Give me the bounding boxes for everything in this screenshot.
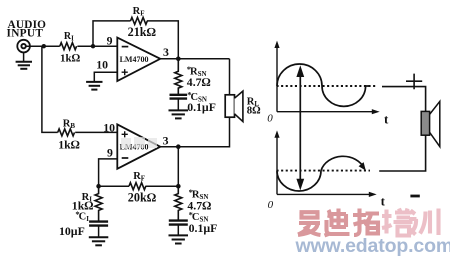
- glyph YI (easy): [298, 212, 321, 235]
- wire U2 output: [160, 146, 178, 148]
- node snubber2 junction: [176, 184, 181, 189]
- svg-text:t: t: [381, 194, 386, 209]
- wire speaker bottom to U2 output: [178, 117, 229, 147]
- wire feedback right-down to output node: [147, 21, 178, 59]
- svg-text:10µF: 10µF: [59, 224, 85, 238]
- svg-text:3: 3: [163, 133, 169, 147]
- svg-text:0: 0: [268, 199, 274, 211]
- waveform plot 1: y-axis: [274, 41, 279, 112]
- svg-text:9: 9: [107, 145, 113, 159]
- wire U2 output down: [177, 147, 179, 187]
- pin 9 label (U1): [107, 34, 113, 48]
- waveform plot 2: y-axis: [274, 130, 279, 194]
- svg-text:3: 3: [163, 45, 169, 59]
- svg-text:9: 9: [107, 34, 113, 48]
- svg-text:RB: RB: [63, 118, 76, 129]
- op-amp U2 LM4700: [117, 124, 160, 168]
- dotted midline (plot 1): [277, 85, 378, 87]
- sine wave (plot 2, inverted): [277, 156, 366, 191]
- dotted midline (plot 2): [277, 170, 371, 172]
- node input junction: [42, 44, 46, 48]
- svg-text:10: 10: [103, 121, 115, 135]
- pin 3 label (U1): [163, 45, 169, 59]
- label RF2 20k: [128, 171, 156, 205]
- resistor RB zigzag: [58, 129, 75, 136]
- wire feedback up-left: [93, 21, 131, 46]
- svg-text:8Ω: 8Ω: [247, 105, 261, 117]
- wire pin9 down to feedback node: [99, 159, 118, 186]
- label Ri2: [72, 192, 94, 212]
- glyph DI (enlighten): [325, 209, 350, 236]
- waveform plot 2: x-axis (t): [277, 192, 386, 209]
- ground (U1 pin 10): [86, 82, 102, 90]
- capacitor CSN1: [170, 95, 188, 111]
- input connector J1: [17, 40, 30, 53]
- ground (CSN1): [169, 110, 189, 118]
- resistor RF (21k) zigzag: [131, 17, 148, 24]
- resistor Ri2 (1k to Ci): [95, 186, 102, 221]
- svg-text:10: 10: [96, 57, 108, 71]
- svg-text:0: 0: [267, 112, 273, 124]
- label RSN2: [187, 187, 211, 213]
- svg-text:RF: RF: [133, 171, 145, 183]
- svg-text:1kΩ: 1kΩ: [60, 53, 81, 65]
- ground (input connector): [16, 52, 32, 68]
- label RB: [58, 118, 80, 151]
- label 0 (plot 2): [268, 199, 274, 211]
- svg-text:20kΩ: 20kΩ: [128, 191, 156, 205]
- node U2 output junction: [176, 144, 181, 149]
- wire speaker loop right side down: [229, 59, 231, 95]
- waveform plot 1: x-axis (t): [277, 109, 389, 127]
- wire pin10 to ground: [94, 72, 117, 82]
- watermark ghost (faint) behind U2: [121, 137, 157, 148]
- label RSN1: [187, 64, 211, 89]
- svg-text:RF: RF: [133, 6, 145, 18]
- label 0 (plot 1): [267, 112, 273, 124]
- node AUDIO INPUT label: [7, 19, 47, 39]
- resistor RSN1 (snubber): [175, 59, 182, 95]
- wire input branch down to RB: [42, 46, 58, 132]
- glyph PEI (cultivate, lighter): [382, 209, 413, 236]
- ground (Ci): [89, 237, 109, 245]
- wire speaker - to dotted line 2: [379, 135, 425, 171]
- svg-text:0.1µF: 0.1µF: [187, 100, 216, 114]
- wire node to RF2: [99, 185, 129, 187]
- node feedback junction: [91, 44, 95, 48]
- svg-text:t: t: [384, 112, 389, 127]
- watermark text: red CJK glyphs (drawn): [298, 209, 439, 236]
- capacitor Ci 10uF: [89, 222, 108, 238]
- speaker (right, bridge load): [421, 101, 440, 146]
- svg-text:1kΩ: 1kΩ: [58, 138, 80, 152]
- op-amp U1 LM4700: [117, 38, 160, 81]
- svg-text:INPUT: INPUT: [7, 28, 44, 40]
- label RL 8ohm: [247, 97, 261, 117]
- capacitor CSN2: [169, 221, 188, 236]
- glyph TUO (expand): [353, 209, 379, 236]
- speaker RL: [225, 91, 243, 122]
- wire RF2 to output node: [145, 185, 178, 187]
- minus terminal: [410, 195, 419, 198]
- pin 3 label (U2): [163, 133, 169, 147]
- svg-text:21kΩ: 21kΩ: [128, 25, 156, 39]
- label Ri: [60, 31, 81, 65]
- resistor Ri (upper) zigzag: [60, 43, 77, 50]
- wire U1 output: [160, 58, 229, 60]
- label RF 21k: [128, 6, 156, 39]
- resistor RF2 (20k) zigzag: [129, 183, 146, 190]
- wire input to Ri: [26, 45, 60, 47]
- pin 10 label (U2): [103, 121, 115, 135]
- resistor RSN2 (snubber): [175, 186, 182, 220]
- node U1 output junction: [176, 57, 181, 62]
- wire dotted line 1 to speaker +: [382, 87, 426, 112]
- svg-text:RI: RI: [64, 31, 74, 42]
- label CSN2: [189, 210, 218, 235]
- svg-text:LM4700: LM4700: [120, 55, 149, 64]
- bridge swing arrow (double-headed): [296, 65, 304, 190]
- watermark text: www.edatop.com: [295, 235, 450, 257]
- sine wave (plot 1): [277, 64, 370, 106]
- svg-text:4.7Ω: 4.7Ω: [187, 75, 211, 89]
- svg-text:www.edatop.com: www.edatop.com: [295, 235, 450, 257]
- node U2 feedback junction: [96, 184, 101, 189]
- pin 9 label (U2): [107, 145, 113, 159]
- pin 10 label (U1): [96, 57, 108, 71]
- label CSN1: [187, 90, 216, 114]
- wire RB to pin 10: [75, 131, 117, 133]
- plus terminal: [406, 74, 422, 90]
- glyph XUN (training, lighter): [408, 209, 439, 236]
- wire Ri to pin 9: [77, 45, 117, 47]
- ground (CSN2): [169, 235, 189, 243]
- label Ci 10uF: [59, 209, 89, 238]
- svg-text:0.1µF: 0.1µF: [189, 221, 218, 235]
